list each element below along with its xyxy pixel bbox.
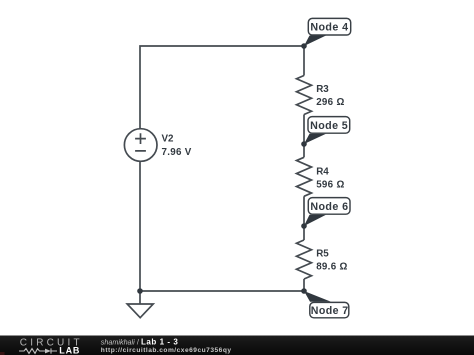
node 6 callout bbox=[304, 198, 350, 226]
wire right vertical node4 to R3 bbox=[303, 46, 305, 76]
voltage source V2 bbox=[124, 129, 157, 162]
logo circuit line with resistor and diode bbox=[19, 348, 57, 353]
svg-text:V2: V2 bbox=[162, 134, 175, 145]
svg-text:R3: R3 bbox=[316, 84, 329, 95]
svg-text:LAB: LAB bbox=[59, 346, 80, 355]
ground bbox=[127, 291, 153, 318]
wire right vertical R5 to node 7 bbox=[303, 279, 305, 291]
svg-text:Node 5: Node 5 bbox=[310, 120, 348, 132]
svg-text:Node 6: Node 6 bbox=[310, 201, 348, 213]
svg-text:shamikhali / Lab 1 - 3: shamikhali / Lab 1 - 3 bbox=[101, 338, 179, 347]
junction dot node 6 bbox=[301, 223, 307, 229]
svg-text:Node 4: Node 4 bbox=[310, 22, 348, 34]
footer red corner mark bbox=[0, 352, 5, 355]
label R3 value bbox=[316, 84, 344, 108]
svg-text:http://circuitlab.com/cxe69cu7: http://circuitlab.com/cxe69cu7356qy bbox=[101, 347, 232, 354]
node 5 callout bbox=[304, 117, 350, 144]
node 7 callout bbox=[304, 291, 349, 318]
wire top horizontal from V2 branch to node 4 bbox=[140, 46, 304, 130]
junction dot node 4 bbox=[301, 43, 307, 49]
wire right vertical R4 to R5 through node 6 bbox=[303, 196, 305, 240]
junction dot node 5 bbox=[301, 141, 307, 147]
svg-text:296 Ω: 296 Ω bbox=[316, 97, 344, 108]
node 4 callout bbox=[304, 18, 351, 46]
wire bottom horizontal from ground node to node 7 bbox=[140, 290, 304, 292]
label R5 value bbox=[316, 249, 347, 273]
svg-text:7.96 V: 7.96 V bbox=[162, 147, 192, 158]
junction dot node 7 bbox=[301, 288, 307, 294]
svg-text:596 Ω: 596 Ω bbox=[316, 180, 344, 191]
resistor R5 bbox=[297, 240, 312, 279]
svg-text:R5: R5 bbox=[316, 249, 329, 260]
svg-text:R4: R4 bbox=[316, 166, 329, 177]
resistor R3 bbox=[297, 76, 312, 115]
junction dot ground node bbox=[137, 288, 143, 294]
label R4 value bbox=[316, 166, 344, 190]
resistor R4 bbox=[297, 157, 312, 196]
label V2 value bbox=[162, 134, 192, 159]
wire right vertical R3 to R4 through node 5 bbox=[303, 115, 305, 158]
svg-text:Node 7: Node 7 bbox=[311, 305, 349, 317]
svg-text:89.6 Ω: 89.6 Ω bbox=[316, 262, 347, 273]
wire left vertical below V2 to ground node bbox=[139, 161, 141, 291]
